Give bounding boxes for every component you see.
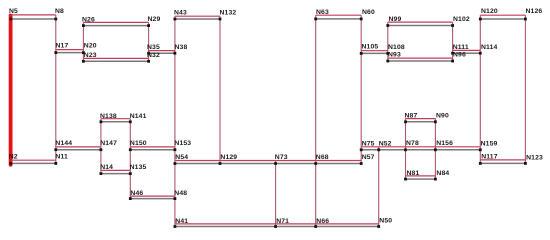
- svg-text:N117: N117: [481, 154, 498, 161]
- svg-text:N48: N48: [174, 190, 187, 197]
- svg-text:N46: N46: [130, 190, 143, 197]
- svg-text:N68: N68: [316, 154, 329, 161]
- svg-text:N73: N73: [275, 154, 288, 161]
- svg-text:N78: N78: [406, 140, 419, 147]
- svg-text:N11: N11: [55, 154, 68, 161]
- svg-text:N144: N144: [55, 140, 72, 147]
- svg-text:N141: N141: [130, 113, 147, 120]
- svg-text:N41: N41: [175, 218, 188, 225]
- svg-text:N14: N14: [100, 164, 113, 171]
- svg-text:N71: N71: [276, 218, 289, 225]
- svg-text:N35: N35: [147, 44, 160, 51]
- svg-text:N126: N126: [526, 8, 543, 15]
- svg-text:N132: N132: [220, 10, 237, 17]
- svg-text:N114: N114: [481, 44, 498, 51]
- svg-text:N108: N108: [388, 44, 405, 51]
- svg-text:N17: N17: [56, 42, 69, 49]
- svg-text:N129: N129: [220, 154, 237, 161]
- svg-text:N38: N38: [175, 44, 188, 51]
- svg-text:N156: N156: [436, 140, 453, 147]
- svg-text:N105: N105: [362, 44, 379, 51]
- svg-text:N26: N26: [82, 16, 95, 23]
- svg-text:N111: N111: [453, 44, 469, 51]
- svg-text:N93: N93: [388, 51, 401, 58]
- svg-text:N81: N81: [407, 170, 420, 177]
- svg-text:N57: N57: [362, 154, 375, 161]
- svg-text:N66: N66: [316, 218, 329, 225]
- svg-text:N52: N52: [379, 140, 392, 147]
- svg-text:N20: N20: [84, 43, 97, 50]
- svg-text:N153: N153: [174, 140, 191, 147]
- svg-text:N159: N159: [481, 140, 498, 147]
- svg-text:N135: N135: [130, 164, 147, 171]
- svg-text:N54: N54: [175, 154, 188, 161]
- svg-text:N50: N50: [379, 218, 392, 225]
- svg-text:N84: N84: [436, 170, 449, 177]
- svg-text:N123: N123: [526, 154, 543, 161]
- svg-text:N147: N147: [100, 140, 117, 147]
- svg-text:N150: N150: [130, 140, 147, 147]
- svg-text:N23: N23: [84, 52, 97, 59]
- svg-text:N32: N32: [147, 52, 160, 59]
- svg-text:N102: N102: [453, 16, 470, 23]
- svg-text:N60: N60: [362, 9, 375, 16]
- svg-text:N75: N75: [362, 140, 375, 147]
- svg-text:N43: N43: [174, 10, 187, 17]
- svg-text:N138: N138: [100, 113, 117, 120]
- svg-text:N2: N2: [9, 153, 18, 160]
- svg-text:N29: N29: [148, 16, 161, 23]
- svg-text:N5: N5: [9, 8, 18, 15]
- svg-text:N120: N120: [481, 8, 498, 15]
- svg-text:N90: N90: [436, 113, 449, 120]
- svg-text:N99: N99: [389, 16, 402, 23]
- svg-text:N87: N87: [405, 113, 418, 120]
- svg-text:N96: N96: [453, 51, 466, 58]
- svg-text:N8: N8: [55, 8, 64, 15]
- svg-text:N63: N63: [316, 9, 329, 16]
